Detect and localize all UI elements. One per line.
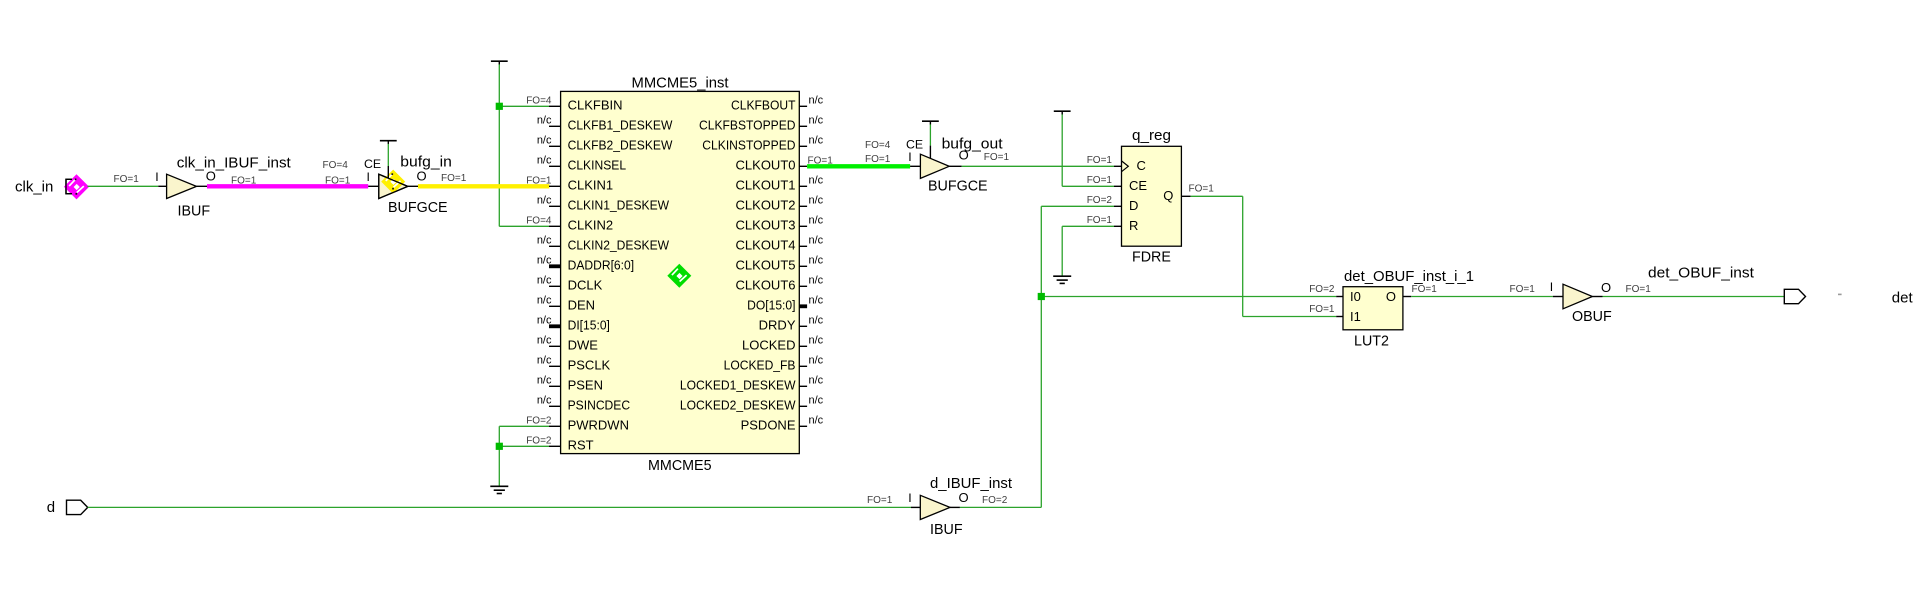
- MMCME5 pin DRDY: [759, 314, 824, 332]
- junction on RST net: [496, 443, 503, 450]
- svg-text:R: R: [1129, 218, 1138, 233]
- svg-text:I: I: [908, 150, 911, 164]
- svg-text:CLKOUT1: CLKOUT1: [736, 178, 796, 193]
- MMCME5 pin DO[15:0]: [747, 294, 824, 312]
- svg-text:FO=1: FO=1: [1087, 215, 1113, 226]
- svg-text:n/c: n/c: [809, 134, 824, 146]
- svg-text:d: d: [47, 499, 55, 516]
- svg-text:n/c: n/c: [809, 294, 824, 306]
- buffer bufg_in (BUFGCE): [379, 174, 408, 198]
- svg-text:I0: I0: [1350, 289, 1361, 304]
- svg-text:MMCME5: MMCME5: [648, 458, 712, 474]
- svg-text:CLKFBIN: CLKFBIN: [568, 98, 623, 113]
- svg-text:CLKOUT0: CLKOUT0: [736, 158, 796, 173]
- svg-text:D: D: [1129, 198, 1138, 213]
- svg-text:I: I: [155, 170, 158, 184]
- MMCME5 pin CLKFBOUT: [731, 94, 824, 112]
- pin O stub of det_OBUF_inst, FO=1: [1592, 280, 1651, 297]
- svg-text:FO=1: FO=1: [984, 152, 1010, 163]
- svg-text:n/c: n/c: [537, 394, 552, 406]
- svg-text:n/c: n/c: [809, 334, 824, 346]
- svg-text:n/c: n/c: [537, 194, 552, 206]
- wire VCC -> CLKIN2: [499, 225, 549, 227]
- MMCME5 pin LOCKED_FB: [724, 354, 824, 372]
- svg-text:n/c: n/c: [537, 274, 552, 286]
- svg-text:clk_in_IBUF_inst: clk_in_IBUF_inst: [177, 156, 291, 172]
- buffer U clk_in_IBUF_inst (IBUF): [167, 156, 291, 220]
- pin CE of bufg_out with VCC tie: [906, 121, 939, 158]
- MMCME5 pin DCLK: [537, 274, 603, 292]
- wire q net q_reg/Q -> LUT2 I1: [1191, 196, 1337, 316]
- input port d: [47, 499, 88, 516]
- MMCME5 pin CLKOUT4: [736, 234, 824, 252]
- svg-text:FO=2: FO=2: [1087, 195, 1113, 206]
- svg-text:OBUF: OBUF: [1572, 309, 1612, 325]
- svg-text:CLKOUT3: CLKOUT3: [736, 218, 796, 233]
- power VCC symbol feeding CLKFBIN/CLKIN2: [491, 61, 508, 226]
- svg-text:PSCLK: PSCLK: [568, 358, 611, 373]
- MMCME5 pin DADDR[6:0]: [537, 254, 634, 272]
- MMCME5 pin PSEN: [537, 374, 603, 392]
- pin I stub of det_OBUF_inst: [1550, 280, 1563, 297]
- svg-text:DEN: DEN: [568, 298, 595, 313]
- MMCME5 pin DI[15:0]: [537, 314, 610, 332]
- pin O stub of bufg_in: [408, 168, 427, 186]
- MMCME5 pin LOCKED: [742, 334, 824, 352]
- svg-text:FO=1: FO=1: [1189, 184, 1215, 195]
- svg-text:FO=1: FO=1: [1087, 155, 1113, 166]
- ground symbol below MMCME5: [490, 486, 508, 493]
- wire R net to ground: [1062, 226, 1114, 276]
- svg-text:n/c: n/c: [809, 234, 824, 246]
- svg-text:q_reg: q_reg: [1132, 128, 1171, 144]
- MMCME5 pin PSCLK: [537, 354, 611, 372]
- svg-text:n/c: n/c: [537, 134, 552, 146]
- MMCME5 pin CLKOUT2: [736, 194, 824, 212]
- svg-text:FO=1: FO=1: [114, 174, 140, 185]
- svg-text:LOCKED2_DESKEW: LOCKED2_DESKEW: [680, 398, 796, 413]
- buffer d_IBUF_inst (IBUF): [920, 476, 1012, 538]
- wire bufg_out -> q_reg/C, FO=1: [962, 152, 1114, 166]
- svg-text:FO=1: FO=1: [1510, 284, 1536, 295]
- module MMCME5_inst (MMCME5): [561, 76, 800, 475]
- svg-text:DI[15:0]: DI[15:0]: [568, 318, 610, 333]
- svg-text:FO=2: FO=2: [982, 495, 1008, 506]
- wire PWRDWN net: [499, 426, 549, 486]
- svg-text:CLKFBSTOPPED: CLKFBSTOPPED: [699, 118, 796, 133]
- svg-text:clk_in: clk_in: [15, 179, 53, 196]
- svg-text:FO=1: FO=1: [526, 175, 552, 186]
- svg-text:n/c: n/c: [537, 314, 552, 326]
- svg-text:IBUF: IBUF: [178, 204, 211, 220]
- svg-text:FO=2: FO=2: [526, 415, 552, 426]
- pin I stub of clk_in_IBUF_inst: [155, 170, 166, 186]
- svg-text:O: O: [206, 168, 216, 183]
- net marker M1 (magenta) on clk_in port: [64, 174, 89, 199]
- buffer bufg_out (BUFGCE): [920, 136, 1002, 194]
- svg-text:n/c: n/c: [809, 174, 824, 186]
- svg-text:O: O: [959, 490, 969, 505]
- MMCME5 pin CLKIN1_DESKEW: [537, 194, 670, 212]
- svg-text:n/c: n/c: [537, 354, 552, 366]
- MMCME5 pin CLKOUT6: [736, 274, 824, 292]
- svg-text:DO[15:0]: DO[15:0]: [747, 298, 795, 313]
- svg-text:BUFGCE: BUFGCE: [388, 200, 448, 216]
- svg-text:n/c: n/c: [809, 314, 824, 326]
- svg-text:n/c: n/c: [809, 414, 824, 426]
- svg-text:n/c: n/c: [537, 334, 552, 346]
- svg-text:n/c: n/c: [809, 374, 824, 386]
- svg-text:bufg_out: bufg_out: [942, 136, 1003, 152]
- svg-text:O: O: [1601, 280, 1611, 295]
- svg-text:I: I: [367, 170, 370, 184]
- svg-text:CLKIN1: CLKIN1: [568, 178, 614, 193]
- pin O stub of LUT2, FO=1: [1403, 284, 1437, 296]
- svg-text:FO=1: FO=1: [325, 176, 351, 187]
- MMCME5 pin LOCKED2_DESKEW: [680, 394, 824, 412]
- svg-text:FO=4: FO=4: [323, 160, 349, 171]
- svg-text:CLKIN1_DESKEW: CLKIN1_DESKEW: [568, 198, 670, 213]
- svg-text:PWRDWN: PWRDWN: [568, 418, 629, 433]
- svg-text:FO=2: FO=2: [1309, 284, 1335, 295]
- svg-text:CLKFB2_DESKEW: CLKFB2_DESKEW: [568, 138, 673, 153]
- junction on CLKFBIN net: [496, 103, 503, 110]
- MMCME5 pin CLKFB1_DESKEW: [537, 114, 673, 132]
- svg-text:DRDY: DRDY: [759, 318, 796, 333]
- svg-text:CLKFB1_DESKEW: CLKFB1_DESKEW: [568, 118, 673, 133]
- MMCME5 pin CLKIN2_DESKEW: [537, 234, 670, 252]
- MMCME5 pin PWRDWN: [526, 415, 629, 432]
- wire clk_in_IBUF (highlighted magenta), FO=1: [207, 176, 368, 187]
- svg-text:PSEN: PSEN: [568, 378, 603, 393]
- svg-text:n/c: n/c: [809, 394, 824, 406]
- wire RST net: [499, 445, 549, 447]
- svg-text:BUFGCE: BUFGCE: [928, 178, 988, 194]
- MMCME5 pin CLKIN1: [526, 175, 613, 192]
- svg-text:CLKINSEL: CLKINSEL: [568, 158, 627, 173]
- MMCME5 pin PSINCDEC: [537, 394, 630, 412]
- svg-text:FO=1: FO=1: [231, 176, 257, 187]
- power VCC symbol feeding q_reg CE: [1054, 111, 1071, 186]
- MMCME5 pin DWE: [537, 334, 598, 352]
- svg-text:FDRE: FDRE: [1132, 250, 1171, 266]
- MMCME5 pin CLKOUT3: [736, 214, 824, 232]
- svg-text:n/c: n/c: [809, 214, 824, 226]
- svg-text:CE: CE: [906, 137, 923, 151]
- svg-text:MMCME5_inst: MMCME5_inst: [632, 76, 729, 92]
- svg-text:n/c: n/c: [809, 254, 824, 266]
- svg-text:n/c: n/c: [537, 154, 552, 166]
- svg-text:O: O: [1386, 289, 1396, 304]
- pin O stub of clk_in_IBUF_inst: [197, 168, 216, 186]
- MMCME5 pin CLKOUT5: [736, 254, 824, 272]
- svg-text:FO=1: FO=1: [867, 495, 893, 506]
- svg-text:CE: CE: [364, 157, 381, 171]
- svg-text:Q: Q: [1163, 188, 1173, 203]
- junction on d_IBUF net: [1038, 293, 1045, 300]
- pin O stub of d_IBUF_inst, FO=2: [950, 490, 1008, 507]
- svg-text:FO=4: FO=4: [865, 140, 891, 151]
- MMCME5 pin CLKOUT0: [736, 155, 834, 172]
- svg-text:FO=1: FO=1: [865, 154, 891, 165]
- svg-text:n/c: n/c: [537, 294, 552, 306]
- pin I stub of d_IBUF_inst: [908, 491, 920, 507]
- svg-text:n/c: n/c: [809, 94, 824, 106]
- svg-text:CLKOUT5: CLKOUT5: [736, 258, 796, 273]
- svg-text:CLKOUT6: CLKOUT6: [736, 278, 796, 293]
- wire clk_in -> IBUF, net clk_in, FO=1: [88, 174, 159, 186]
- svg-text:det_OBUF_inst: det_OBUF_inst: [1648, 266, 1754, 282]
- labels FO=4 / FO=1 at bufg_in input: [323, 160, 351, 187]
- svg-text:d_IBUF_inst: d_IBUF_inst: [930, 476, 1012, 492]
- svg-text:FO=1: FO=1: [1309, 304, 1335, 315]
- MMCME5 pin CLKINSTOPPED: [702, 134, 823, 152]
- svg-text:n/c: n/c: [809, 194, 824, 206]
- svg-text:n/c: n/c: [809, 114, 824, 126]
- MMCME5 pin CLKFB2_DESKEW: [537, 134, 673, 152]
- svg-text:PSDONE: PSDONE: [741, 418, 796, 433]
- svg-text:n/c: n/c: [809, 354, 824, 366]
- wire clk net CLKOUT0 (highlighted green): [807, 164, 910, 168]
- svg-text:FO=1: FO=1: [1626, 284, 1652, 295]
- svg-text:DWE: DWE: [568, 338, 599, 353]
- svg-text:n/c: n/c: [537, 374, 552, 386]
- svg-text:CLKOUT4: CLKOUT4: [736, 238, 796, 253]
- pin I stub of bufg_out: [908, 150, 920, 166]
- svg-text:n/c: n/c: [809, 274, 824, 286]
- register q_reg (FDRE): [1122, 128, 1182, 266]
- svg-text:FO=1: FO=1: [441, 173, 467, 184]
- svg-text:det_OBUF_inst_i_1: det_OBUF_inst_i_1: [1344, 269, 1474, 285]
- labels FO=4 / FO=1 at bufg_out input: [865, 140, 891, 165]
- wire d -> d_IBUF_inst, FO=1: [88, 495, 911, 507]
- pin Q stub of q_reg, FO=1: [1181, 184, 1214, 197]
- svg-text:LOCKED1_DESKEW: LOCKED1_DESKEW: [680, 378, 796, 393]
- MMCME5 pin PSDONE: [741, 414, 824, 432]
- pin I stub of bufg_in: [367, 170, 379, 186]
- wire VCC -> CE: [1062, 185, 1114, 187]
- gate det_OBUF_inst_i_1 (LUT2): [1343, 269, 1474, 350]
- svg-text:n/c: n/c: [537, 114, 552, 126]
- svg-text:n/c: n/c: [537, 234, 552, 246]
- wire d_IBUF net -> q_reg/D and LUT2 I0: [960, 206, 1336, 507]
- wire VCC -> CLKFBIN: [499, 105, 549, 107]
- wire bufg_in net (highlighted yellow), FO=1: [418, 173, 549, 186]
- svg-text:O: O: [959, 147, 969, 162]
- MMCME5 pin CLKIN2: [526, 215, 613, 232]
- svg-text:FO=1: FO=1: [1087, 175, 1113, 186]
- svg-text:LOCKED_FB: LOCKED_FB: [724, 358, 796, 373]
- q_reg pin stubs C CE D R: [1087, 155, 1122, 227]
- svg-text:RST: RST: [568, 438, 594, 453]
- ground symbol below q_reg: [1053, 276, 1071, 283]
- svg-text:FO=1: FO=1: [1412, 284, 1438, 295]
- MMCME5 pin CLKFBIN: [526, 95, 622, 112]
- buffer det_OBUF_inst (OBUF): [1563, 266, 1754, 325]
- input port clk_in: [15, 179, 87, 196]
- svg-text:O: O: [417, 168, 427, 183]
- output port det: [1784, 289, 1913, 306]
- wire LUT2/O -> OBUF/I, FO=1: [1411, 284, 1553, 296]
- svg-text:CLKOUT2: CLKOUT2: [736, 198, 796, 213]
- svg-text:FO=4: FO=4: [526, 95, 552, 106]
- svg-text:I: I: [1550, 280, 1553, 294]
- svg-text:FO=4: FO=4: [526, 215, 552, 226]
- MMCME5 pin CLKINSEL: [537, 154, 626, 172]
- svg-text:PSINCDEC: PSINCDEC: [568, 398, 631, 413]
- svg-text:CLKFBOUT: CLKFBOUT: [731, 98, 796, 113]
- MMCME5 pin RST: [526, 435, 593, 452]
- svg-text:n/c: n/c: [537, 254, 552, 266]
- MMCME5 pin CLKOUT1: [736, 174, 824, 192]
- net marker M2 (yellow) on bufg_in: [379, 155, 452, 216]
- svg-text:IBUF: IBUF: [930, 522, 963, 538]
- svg-text:CE: CE: [1129, 178, 1147, 193]
- svg-text:I1: I1: [1350, 309, 1361, 324]
- net marker M3 (green) on MMCME5_inst: [667, 264, 691, 288]
- wire det net -> output port: [1603, 296, 1785, 298]
- pin O stub of bufg_out: [949, 147, 969, 166]
- pin CE of bufg_in with VCC tie: [364, 141, 397, 171]
- svg-text:C: C: [1137, 158, 1146, 173]
- MMCME5 pin DEN: [537, 294, 595, 312]
- svg-text:CLKIN2_DESKEW: CLKIN2_DESKEW: [568, 238, 670, 253]
- svg-text:DCLK: DCLK: [568, 278, 603, 293]
- svg-text:LUT2: LUT2: [1354, 334, 1389, 350]
- MMCME5 pin LOCKED1_DESKEW: [680, 374, 824, 392]
- svg-text:CLKINSTOPPED: CLKINSTOPPED: [702, 138, 795, 153]
- LUT2 input stubs I0 I1, FO=2 / FO=1: [1309, 284, 1343, 316]
- MMCME5 pin CLKFBSTOPPED: [699, 114, 824, 132]
- svg-text:LOCKED: LOCKED: [742, 338, 795, 353]
- svg-text:DADDR[6:0]: DADDR[6:0]: [568, 258, 635, 273]
- svg-text:I: I: [908, 491, 911, 505]
- svg-text:CLKIN2: CLKIN2: [568, 218, 614, 233]
- svg-text:FO=2: FO=2: [526, 435, 552, 446]
- svg-text:det: det: [1892, 289, 1914, 306]
